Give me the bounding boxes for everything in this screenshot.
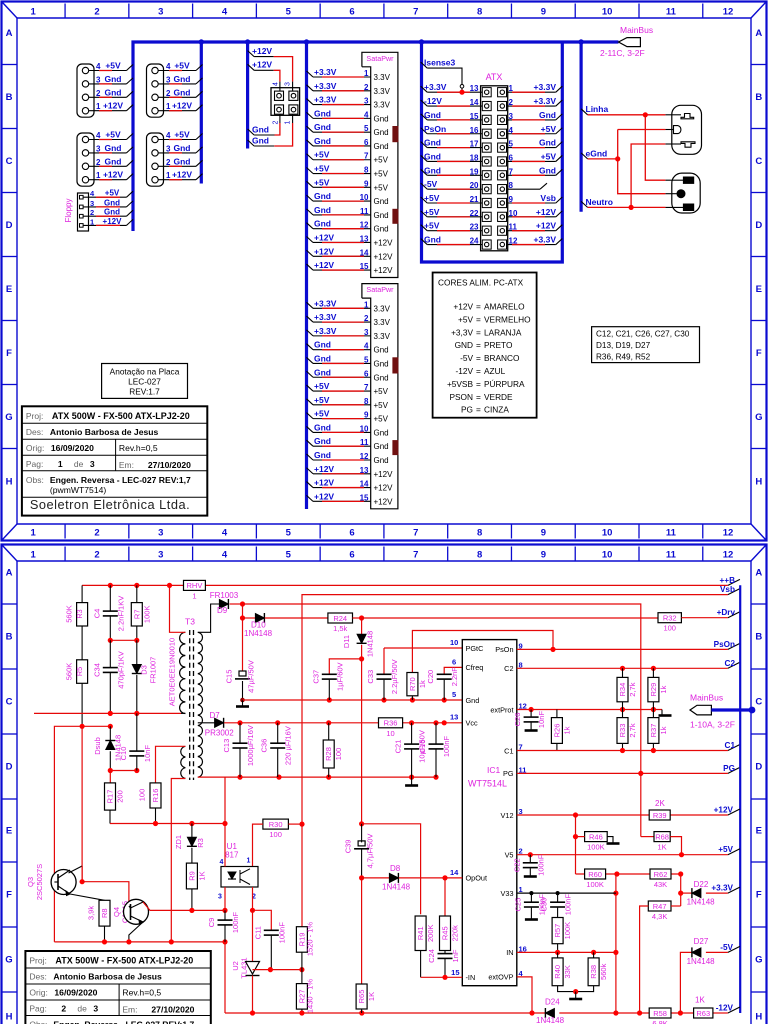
svg-text:27/10/2020: 27/10/2020 <box>151 1005 194 1015</box>
svg-text:++B: ++B <box>720 576 736 585</box>
svg-text:19: 19 <box>470 167 479 176</box>
svg-text:1000µF/16V: 1000µF/16V <box>246 725 255 766</box>
svg-text:Antonio Barbosa de Jesus: Antonio Barbosa de Jesus <box>50 427 159 437</box>
capacitor C26 <box>530 710 532 717</box>
svg-text:1N4148: 1N4148 <box>536 1016 565 1024</box>
svg-text:220k: 220k <box>451 925 460 942</box>
wire PsOn row <box>517 648 728 650</box>
svg-text:Isense3: Isense3 <box>424 58 455 68</box>
sata pin 6 wire <box>307 371 314 377</box>
sata key mark 2 <box>393 441 398 455</box>
svg-text:PsOn: PsOn <box>424 124 446 134</box>
svg-text:=: = <box>476 366 481 376</box>
svg-text:+12V: +12V <box>314 478 334 488</box>
svg-text:ATX 500W - FX-500 ATX-LPJ2-20: ATX 500W - FX-500 ATX-LPJ2-20 <box>52 411 190 421</box>
svg-text:43K: 43K <box>654 880 667 889</box>
svg-text:1N4148: 1N4148 <box>687 898 716 907</box>
sata pin 2 wire <box>307 316 314 322</box>
svg-text:B: B <box>6 632 13 643</box>
sata pin 10 wire <box>307 195 314 201</box>
svg-text:4: 4 <box>220 859 224 866</box>
svg-text:1k: 1k <box>562 726 571 734</box>
svg-text:Gnd: Gnd <box>314 108 331 118</box>
svg-text:Gnd: Gnd <box>374 114 389 123</box>
svg-text:IN: IN <box>506 948 513 957</box>
svg-text:Gnd: Gnd <box>424 165 441 175</box>
wire +12V to pin4 <box>248 64 255 70</box>
svg-text:1N4148: 1N4148 <box>244 629 273 638</box>
svg-text:C2: C2 <box>504 664 513 673</box>
svg-text:R3: R3 <box>196 838 205 848</box>
svg-text:2.2µF/50V: 2.2µF/50V <box>390 659 399 694</box>
svg-text:R36: R36 <box>384 719 398 728</box>
svg-text:1K: 1K <box>695 996 705 1005</box>
wire C39 to R65 <box>361 878 363 984</box>
svg-text:23: 23 <box>470 223 479 232</box>
svg-text:+12V: +12V <box>252 60 272 70</box>
wire PGtC row <box>384 647 462 649</box>
svg-text:R41: R41 <box>416 926 425 940</box>
svg-text:C37: C37 <box>311 670 320 684</box>
atx pin row 6 <box>482 157 491 166</box>
svg-text:Gnd: Gnd <box>374 456 389 465</box>
svg-text:13: 13 <box>360 234 369 243</box>
sata pin 1 wire <box>307 71 314 77</box>
svg-text:+5V: +5V <box>458 314 473 324</box>
svg-text:+12V: +12V <box>374 484 394 493</box>
resistor R68 <box>641 836 654 838</box>
svg-text:1: 1 <box>247 858 251 865</box>
capacitor C9 <box>224 910 226 919</box>
sata pin 15 wire <box>307 495 314 501</box>
connector ATX 24pin <box>481 86 508 251</box>
resistor R28 <box>328 723 330 740</box>
svg-text:6,8K: 6,8K <box>652 1019 667 1024</box>
svg-text:17: 17 <box>470 140 479 149</box>
svg-text:D: D <box>6 762 13 773</box>
wire Cfreq row <box>444 667 462 673</box>
svg-text:Cfreq: Cfreq <box>466 663 484 672</box>
svg-text:+5V: +5V <box>424 221 440 231</box>
wire 776-823 link <box>224 777 226 823</box>
molex connector P3 <box>147 64 164 117</box>
svg-text:16/09/2020: 16/09/2020 <box>51 443 94 453</box>
svg-text:3.3V: 3.3V <box>374 304 391 313</box>
svg-text:+12V: +12V <box>172 170 192 180</box>
svg-text:+12V: +12V <box>103 217 123 226</box>
svg-text:+12V: +12V <box>536 221 556 231</box>
svg-text:VERDE: VERDE <box>484 392 513 402</box>
svg-text:10: 10 <box>450 638 458 647</box>
svg-text:AZUL: AZUL <box>484 366 506 376</box>
capacitor C34 <box>109 640 111 667</box>
sata pin 4 wire <box>307 112 314 118</box>
svg-text:10: 10 <box>602 7 613 18</box>
capacitor C37 <box>322 673 337 675</box>
svg-text:Proj:: Proj: <box>29 956 46 966</box>
svg-text:PG: PG <box>723 764 735 773</box>
svg-text:R37: R37 <box>649 724 658 738</box>
svg-text:-5V: -5V <box>424 179 438 189</box>
capacitor C10 <box>136 713 138 750</box>
wire pin2-C11 <box>253 910 272 929</box>
connector SataPwr <box>362 284 398 509</box>
svg-text:R68: R68 <box>655 832 669 841</box>
svg-text:2: 2 <box>364 314 369 323</box>
svg-text:16/09/2020: 16/09/2020 <box>54 988 97 998</box>
wire -IN row <box>421 976 463 978</box>
svg-text:D9: D9 <box>217 606 228 615</box>
svg-text:+3.3V: +3.3V <box>314 298 337 308</box>
svg-text:F: F <box>756 890 762 901</box>
svg-text:+5V: +5V <box>718 845 733 854</box>
svg-text:Gnd: Gnd <box>105 156 122 166</box>
node C39 top <box>359 821 364 826</box>
svg-text:12: 12 <box>723 7 734 18</box>
svg-text:R29: R29 <box>649 683 658 697</box>
svg-text:4: 4 <box>222 7 228 18</box>
resistor R32 <box>658 613 681 623</box>
wire bottom rail Q area <box>54 941 225 943</box>
svg-text:200K: 200K <box>426 924 435 942</box>
svg-text:3.3V: 3.3V <box>374 332 391 341</box>
resistor R34 <box>622 668 624 677</box>
sata pin 13 wire <box>307 468 314 474</box>
svg-text:+5VSB: +5VSB <box>447 379 474 389</box>
svg-text:3: 3 <box>96 75 101 84</box>
capacitor C11 <box>264 929 279 931</box>
svg-text:=: = <box>476 392 481 402</box>
svg-text:220 µF/16V: 220 µF/16V <box>284 726 293 765</box>
svg-text:Obs:: Obs: <box>26 475 44 485</box>
svg-text:9: 9 <box>541 7 546 18</box>
svg-text:100: 100 <box>663 624 676 633</box>
wire R47 right <box>671 905 681 907</box>
svg-text:100nF: 100nF <box>564 894 573 916</box>
svg-text:VERMELHO: VERMELHO <box>484 314 531 324</box>
resistor R33 <box>622 710 624 718</box>
diode D9 FR1003 <box>219 600 228 609</box>
wire Q4 emitter <box>129 922 143 942</box>
svg-text:D24: D24 <box>545 998 560 1007</box>
resistor R37 <box>652 710 654 718</box>
wire extOVP drop <box>517 977 532 1013</box>
svg-text:LEC-027: LEC-027 <box>128 377 161 387</box>
svg-text:1nF: 1nF <box>451 949 460 962</box>
resistor R9 <box>186 863 197 889</box>
svg-text:Gnd: Gnd <box>374 211 389 220</box>
wire row 823 <box>110 823 225 825</box>
svg-text:Gnd: Gnd <box>539 165 556 175</box>
svg-text:+12V: +12V <box>374 252 394 261</box>
svg-text:PSON: PSON <box>449 392 473 402</box>
sata key mark 1 <box>393 358 398 373</box>
svg-text:3: 3 <box>90 459 95 469</box>
svg-text:Proj:: Proj: <box>26 411 43 421</box>
svg-text:100K: 100K <box>586 880 604 889</box>
svg-text:Gnd: Gnd <box>174 156 191 166</box>
wire vertical A <box>615 874 617 1013</box>
svg-text:47µF/50V: 47µF/50V <box>247 660 256 693</box>
svg-text:6: 6 <box>452 658 456 667</box>
AC socket top <box>672 105 702 154</box>
svg-text:+5V: +5V <box>374 415 389 424</box>
svg-text:R36, R49, R52: R36, R49, R52 <box>596 353 651 362</box>
svg-text:1: 1 <box>192 591 196 600</box>
svg-text:E: E <box>6 284 12 295</box>
svg-text:7: 7 <box>364 152 369 161</box>
sata key mark 1 <box>393 127 398 142</box>
svg-text:1: 1 <box>31 7 37 18</box>
svg-text:+3.3V: +3.3V <box>314 326 337 336</box>
svg-text:+5V: +5V <box>374 156 389 165</box>
svg-text:5: 5 <box>286 7 292 18</box>
atx pin row 4 <box>482 129 491 138</box>
svg-text:+5V: +5V <box>174 61 190 71</box>
svg-text:3: 3 <box>96 144 101 153</box>
svg-text:21: 21 <box>470 195 479 204</box>
svg-text:Gnd: Gnd <box>252 135 269 145</box>
svg-text:27/10/2020: 27/10/2020 <box>148 460 191 470</box>
svg-text:R47: R47 <box>653 902 667 911</box>
svg-text:R26: R26 <box>552 724 561 738</box>
svg-text:13: 13 <box>450 713 458 722</box>
svg-text:+5V: +5V <box>105 189 120 198</box>
anotacao box <box>102 364 188 399</box>
svg-text:3.3V: 3.3V <box>374 73 391 82</box>
svg-text:12: 12 <box>360 452 369 461</box>
svg-text:2.2nF: 2.2nF <box>450 667 459 687</box>
svg-text:Gnd: Gnd <box>314 136 331 146</box>
sata pin 9 wire <box>307 181 314 187</box>
svg-text:R40: R40 <box>553 965 562 979</box>
svg-text:R57: R57 <box>553 924 562 938</box>
svg-text:Em:: Em: <box>122 1005 137 1015</box>
svg-text:E: E <box>756 284 762 295</box>
svg-text:6: 6 <box>349 7 354 18</box>
wire primary return rail <box>34 712 181 714</box>
wire C2 row <box>517 667 728 669</box>
svg-text:+5V: +5V <box>314 395 330 405</box>
wire U1 pin3 <box>224 887 226 910</box>
svg-text:11: 11 <box>666 550 677 561</box>
svg-text:Gnd: Gnd <box>539 138 556 148</box>
svg-text:R7: R7 <box>132 610 141 620</box>
svg-text:4: 4 <box>364 110 369 119</box>
svg-text:2,7k: 2,7k <box>628 723 637 737</box>
wire R68 to +5V row <box>670 837 681 855</box>
svg-text:24: 24 <box>470 237 479 246</box>
svg-text:AMARELO: AMARELO <box>484 302 525 312</box>
svg-text:Gnd: Gnd <box>314 367 331 377</box>
svg-text:1: 1 <box>31 528 37 539</box>
svg-text:C: C <box>6 697 13 708</box>
svg-text:1k: 1k <box>659 726 668 734</box>
svg-text:Gnd: Gnd <box>105 143 122 153</box>
svg-text:C30: C30 <box>540 898 549 912</box>
sata pin 7 wire <box>307 385 314 391</box>
svg-text:H: H <box>6 1012 13 1023</box>
svg-text:ATX 500W - FX-500 ATX-LPJ2-20: ATX 500W - FX-500 ATX-LPJ2-20 <box>55 956 193 966</box>
svg-text:100K: 100K <box>587 843 605 852</box>
svg-text:22: 22 <box>470 209 479 218</box>
sata pin 9 wire <box>307 413 314 419</box>
wire T3 primary bottom <box>181 712 185 714</box>
svg-text:eGnd: eGnd <box>586 148 608 158</box>
svg-text:+5V: +5V <box>105 130 121 140</box>
capacitor C13 <box>239 723 241 743</box>
svg-text:RHV: RHV <box>187 581 203 590</box>
wire +Drv rail <box>362 617 658 619</box>
wire ++B rail <box>82 584 183 586</box>
svg-text:1: 1 <box>31 550 37 561</box>
wire Vcc rail <box>224 722 378 724</box>
svg-text:5: 5 <box>286 528 292 539</box>
wire bottom -12V rail <box>225 1012 545 1014</box>
svg-text:+3.3V: +3.3V <box>711 884 733 893</box>
wire Q3 emitter to R8 <box>70 894 105 900</box>
svg-text:2: 2 <box>273 120 280 124</box>
svg-text:R30: R30 <box>269 820 283 829</box>
svg-text:+5V: +5V <box>314 409 330 419</box>
svg-text:11: 11 <box>666 528 677 539</box>
svg-text:1520 - 1%: 1520 - 1% <box>306 922 315 957</box>
svg-text:Gnd: Gnd <box>174 143 191 153</box>
svg-text:2SC5027S: 2SC5027S <box>35 864 44 900</box>
svg-text:Obs:: Obs: <box>29 1020 47 1024</box>
MainBus tag <box>581 40 618 43</box>
svg-text:G: G <box>755 412 762 423</box>
molex connector P4 <box>147 133 164 186</box>
resistor R58 <box>649 1008 671 1018</box>
svg-text:Gnd: Gnd <box>374 428 389 437</box>
svg-text:9: 9 <box>364 179 369 188</box>
svg-text:1: 1 <box>364 69 369 78</box>
atx pin row 11 <box>482 226 491 235</box>
svg-text:F: F <box>756 348 762 359</box>
svg-text:-12V: -12V <box>455 366 473 376</box>
svg-text:Soeletron Eletrônica Ltda.: Soeletron Eletrônica Ltda. <box>30 497 190 512</box>
zener ZD1 <box>191 824 193 838</box>
svg-text:Gnd: Gnd <box>314 353 331 363</box>
diode D27 <box>680 952 692 1013</box>
svg-text:+12V: +12V <box>314 232 334 242</box>
sata pin 5 wire <box>307 126 314 132</box>
svg-text:+12V: +12V <box>314 464 334 474</box>
svg-text:C: C <box>755 156 762 167</box>
svg-text:A: A <box>6 28 13 39</box>
svg-text:Gnd: Gnd <box>174 87 191 97</box>
svg-text:5: 5 <box>364 355 369 364</box>
capacitor C22 <box>529 855 531 863</box>
svg-text:+3.3V: +3.3V <box>314 312 337 322</box>
svg-text:C10: C10 <box>119 747 128 761</box>
wire node 640 <box>110 639 137 641</box>
molex connector P1 <box>77 64 94 117</box>
node D11 out <box>359 656 364 661</box>
svg-text:8: 8 <box>477 528 482 539</box>
right border bus <box>739 585 741 1013</box>
svg-text:R28: R28 <box>324 747 333 761</box>
wire PG row <box>517 772 728 774</box>
sata key mark 2 <box>393 209 398 223</box>
wire extProt row <box>517 709 662 711</box>
svg-text:3: 3 <box>158 550 163 561</box>
svg-text:560k: 560k <box>599 963 608 980</box>
bus junction dots <box>199 39 204 44</box>
svg-text:2: 2 <box>166 158 171 167</box>
svg-text:+3.3V: +3.3V <box>314 95 337 105</box>
svg-text:2: 2 <box>166 89 171 98</box>
sata pin 3 wire <box>307 330 314 336</box>
svg-text:Gnd: Gnd <box>314 219 331 229</box>
svg-text:+3,3V: +3,3V <box>451 327 473 337</box>
svg-text:10: 10 <box>602 528 613 539</box>
resistor R5 <box>77 660 88 684</box>
svg-text:C4: C4 <box>92 609 101 619</box>
svg-text:1-10A, 3-2F: 1-10A, 3-2F <box>690 720 735 730</box>
svg-text:D: D <box>755 762 762 773</box>
sata pin 11 wire <box>307 209 314 215</box>
wire D11 column down <box>361 659 363 824</box>
svg-text:ATX: ATX <box>486 72 503 82</box>
sata pin 12 wire <box>307 223 314 229</box>
svg-text:10: 10 <box>602 550 613 561</box>
svg-text:Gnd: Gnd <box>424 138 441 148</box>
capacitor C30 <box>557 893 559 902</box>
svg-text:1,5k: 1,5k <box>333 624 347 633</box>
sata pin 13 wire <box>307 236 314 242</box>
svg-text:A: A <box>755 568 762 579</box>
svg-text:3: 3 <box>364 97 369 106</box>
sata pin 1 wire <box>307 302 314 308</box>
wire vertical C <box>680 874 682 906</box>
svg-text:+12V: +12V <box>536 207 556 217</box>
capacitor C39 <box>361 824 363 843</box>
wire node 726 <box>54 726 110 942</box>
svg-text:+12V: +12V <box>314 260 334 270</box>
svg-text:C20: C20 <box>426 670 435 684</box>
svg-text:+12V: +12V <box>374 470 394 479</box>
svg-text:Antonio Barbosa de Jesus: Antonio Barbosa de Jesus <box>53 972 162 982</box>
svg-text:(pwmWT7514): (pwmWT7514) <box>50 485 106 495</box>
svg-text:Engen. Reversa - LEC-027 REV:: Engen. Reversa - LEC-027 REV:1,7 <box>50 475 191 485</box>
svg-text:R8: R8 <box>100 908 109 918</box>
svg-text:+12V: +12V <box>374 266 394 275</box>
svg-text:4: 4 <box>96 62 101 71</box>
wire R3-R5 <box>81 626 83 660</box>
svg-text:Engen. Reversa - LEC-027 REV:: Engen. Reversa - LEC-027 REV:1,7 <box>53 1020 194 1024</box>
AC socket top leads <box>665 114 681 116</box>
wire T3 lower-left bottom <box>171 779 185 942</box>
svg-text:R34: R34 <box>618 683 627 697</box>
svg-text:Gnd: Gnd <box>104 208 120 217</box>
atx pin row 2 <box>482 101 491 110</box>
svg-text:+3.3V: +3.3V <box>424 82 447 92</box>
svg-text:C1: C1 <box>504 746 513 755</box>
svg-text:14: 14 <box>470 98 479 107</box>
svg-text:10nF: 10nF <box>143 745 152 763</box>
svg-text:C39: C39 <box>344 840 353 854</box>
svg-text:R46: R46 <box>589 832 603 841</box>
atx pin row 1 <box>482 88 491 97</box>
svg-text:Rev.h=0,5: Rev.h=0,5 <box>122 988 161 998</box>
svg-text:BRANCO: BRANCO <box>484 353 520 363</box>
wire V12 row <box>517 814 649 816</box>
ATX bus box <box>422 42 563 262</box>
svg-text:+5V: +5V <box>374 170 389 179</box>
diode D24 <box>545 1009 554 1018</box>
